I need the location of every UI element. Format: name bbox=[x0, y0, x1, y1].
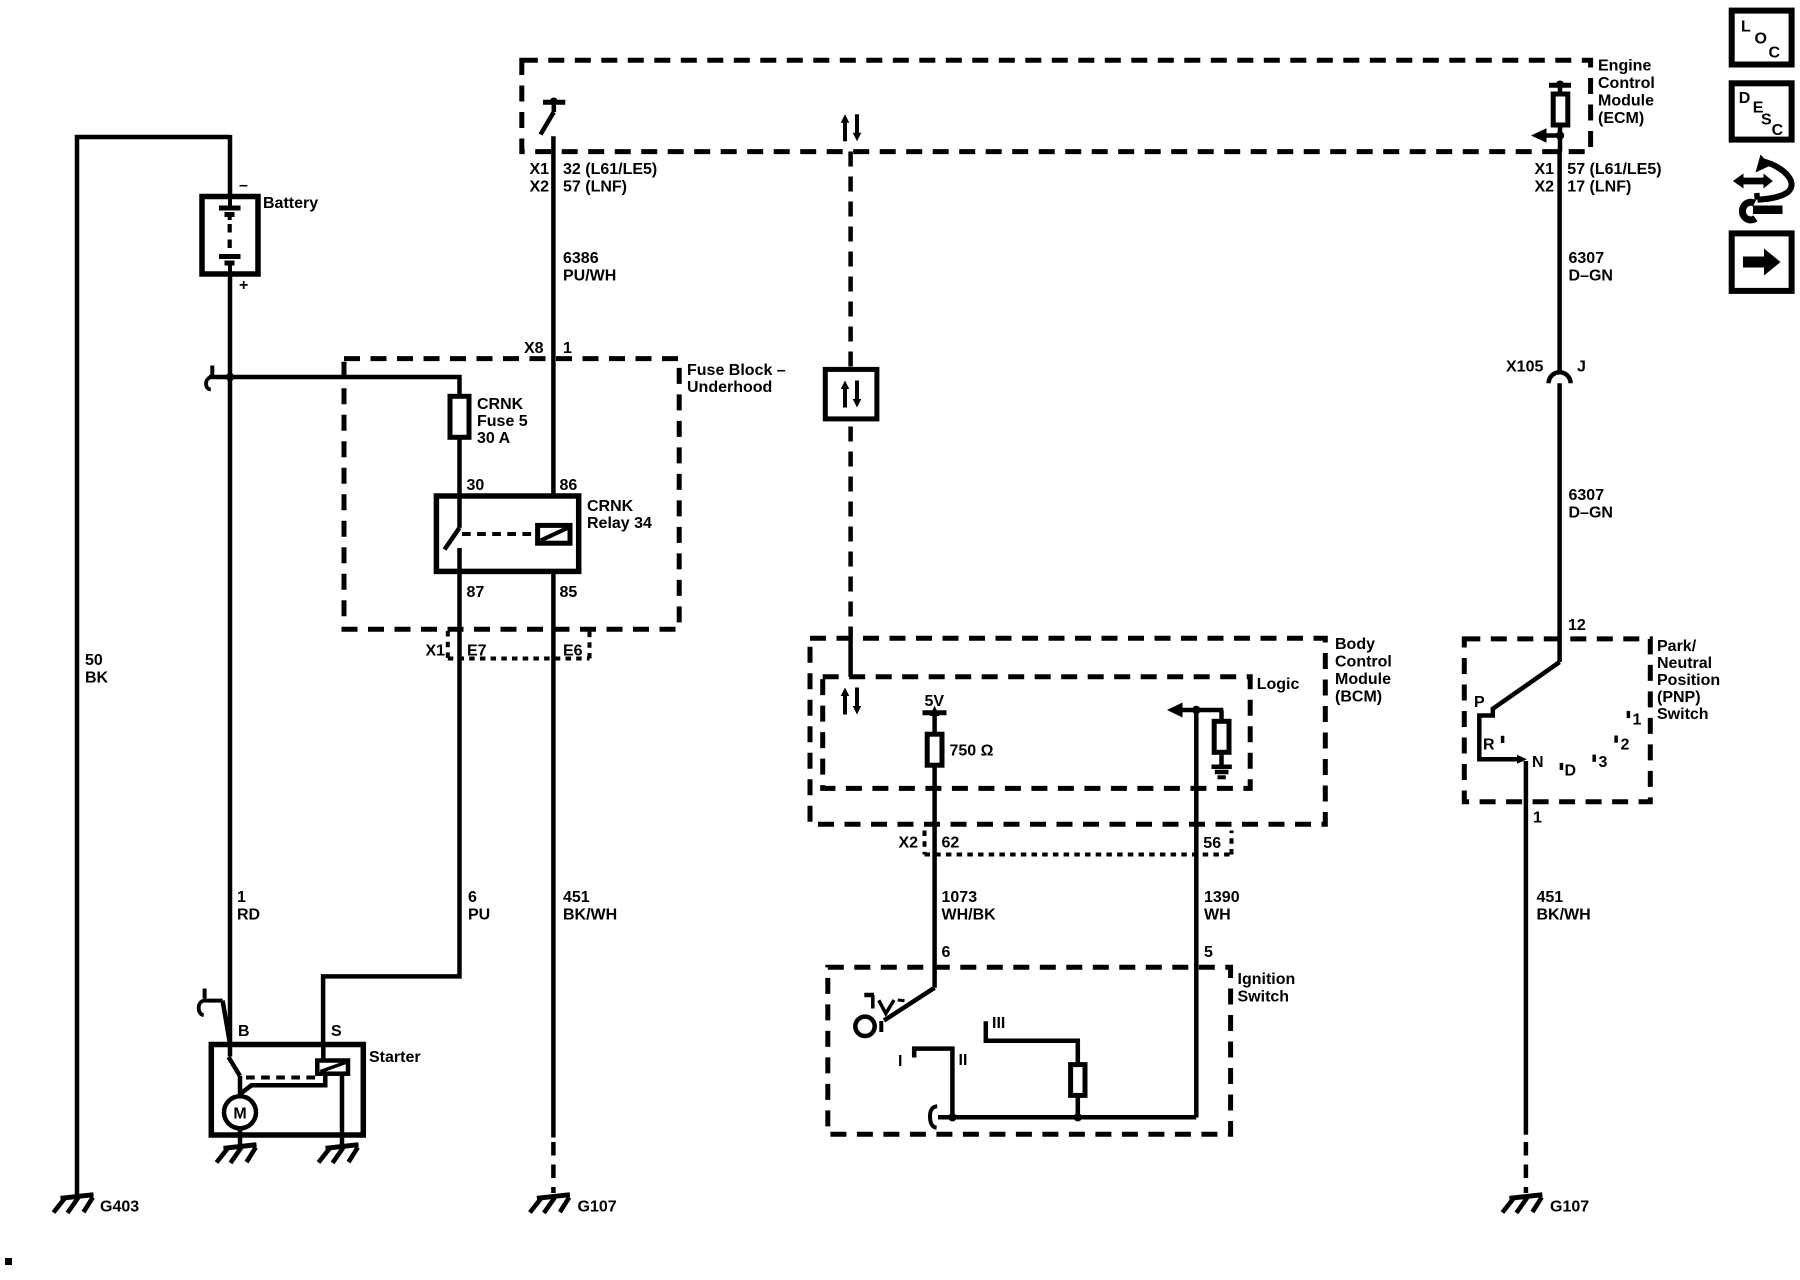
svg-text:6307: 6307 bbox=[1569, 487, 1605, 504]
svg-text:6307: 6307 bbox=[1569, 250, 1605, 267]
svg-text:D–GN: D–GN bbox=[1569, 505, 1613, 522]
svg-text:G403: G403 bbox=[100, 1199, 139, 1216]
svg-text:85: 85 bbox=[560, 584, 578, 601]
svg-text:CRNK: CRNK bbox=[477, 396, 524, 413]
svg-text:57 (L61/LE5): 57 (L61/LE5) bbox=[1567, 161, 1661, 178]
svg-text:I: I bbox=[898, 1053, 902, 1070]
svg-text:C: C bbox=[1772, 122, 1784, 139]
svg-text:P: P bbox=[1474, 694, 1485, 711]
svg-text:6: 6 bbox=[468, 889, 477, 906]
svg-text:S: S bbox=[1761, 112, 1772, 129]
svg-text:X2: X2 bbox=[530, 179, 550, 196]
svg-text:2: 2 bbox=[1621, 737, 1630, 754]
svg-text:–: – bbox=[239, 177, 248, 194]
svg-text:WH: WH bbox=[1204, 907, 1231, 924]
svg-text:62: 62 bbox=[942, 835, 960, 852]
svg-text:6: 6 bbox=[942, 944, 951, 961]
svg-text:Control: Control bbox=[1598, 75, 1655, 92]
svg-text:L: L bbox=[1741, 19, 1751, 36]
svg-text:II: II bbox=[959, 1052, 968, 1069]
svg-text:M: M bbox=[233, 1106, 246, 1123]
svg-text:Ignition: Ignition bbox=[1238, 971, 1296, 988]
svg-text:E7: E7 bbox=[467, 643, 487, 660]
svg-text:BK/WH: BK/WH bbox=[1537, 907, 1591, 924]
svg-text:Module: Module bbox=[1598, 93, 1654, 110]
svg-text:1: 1 bbox=[1533, 810, 1542, 827]
svg-text:BK: BK bbox=[85, 670, 109, 687]
svg-text:1073: 1073 bbox=[942, 889, 978, 906]
svg-text:56: 56 bbox=[1203, 835, 1221, 852]
svg-text:R: R bbox=[1483, 737, 1495, 754]
svg-text:N: N bbox=[1532, 754, 1544, 771]
svg-text:Engine: Engine bbox=[1598, 58, 1651, 75]
svg-text:30: 30 bbox=[467, 477, 485, 494]
svg-text:451: 451 bbox=[563, 889, 590, 906]
svg-text:Module: Module bbox=[1335, 671, 1391, 688]
svg-text:CRNK: CRNK bbox=[587, 498, 634, 515]
svg-text:D: D bbox=[1565, 763, 1577, 780]
svg-text:X2: X2 bbox=[1535, 179, 1555, 196]
svg-text:750 Ω: 750 Ω bbox=[950, 743, 994, 760]
svg-text:57 (LNF): 57 (LNF) bbox=[563, 179, 627, 196]
svg-text:X1: X1 bbox=[426, 643, 446, 660]
svg-text:III: III bbox=[992, 1015, 1005, 1032]
svg-text:Position: Position bbox=[1657, 672, 1720, 689]
svg-text:451: 451 bbox=[1537, 889, 1564, 906]
svg-text:Underhood: Underhood bbox=[687, 379, 772, 396]
svg-text:Battery: Battery bbox=[263, 195, 318, 212]
svg-text:B: B bbox=[238, 1023, 250, 1040]
svg-text:+: + bbox=[239, 277, 248, 294]
svg-text:Park/: Park/ bbox=[1657, 638, 1697, 655]
svg-text:(PNP): (PNP) bbox=[1657, 689, 1701, 706]
svg-text:D: D bbox=[1739, 90, 1751, 107]
svg-text:30 A: 30 A bbox=[477, 430, 511, 447]
svg-text:1: 1 bbox=[563, 340, 572, 357]
svg-text:E6: E6 bbox=[563, 643, 583, 660]
svg-text:G107: G107 bbox=[1550, 1199, 1589, 1216]
svg-text:RD: RD bbox=[237, 907, 260, 924]
svg-text:PU/WH: PU/WH bbox=[563, 268, 616, 285]
svg-text:1: 1 bbox=[1633, 712, 1642, 729]
svg-text:G107: G107 bbox=[578, 1199, 617, 1216]
svg-text:Fuse 5: Fuse 5 bbox=[477, 413, 528, 430]
svg-text:12: 12 bbox=[1568, 617, 1586, 634]
svg-text:D–GN: D–GN bbox=[1569, 268, 1613, 285]
svg-text:S: S bbox=[331, 1023, 342, 1040]
svg-text:50: 50 bbox=[85, 652, 103, 669]
svg-text:32 (L61/LE5): 32 (L61/LE5) bbox=[563, 161, 657, 178]
svg-text:C: C bbox=[1769, 45, 1781, 62]
svg-text:6386: 6386 bbox=[563, 250, 599, 267]
svg-text:X8: X8 bbox=[524, 340, 544, 357]
svg-text:Logic: Logic bbox=[1257, 676, 1300, 693]
svg-text:Control: Control bbox=[1335, 654, 1392, 671]
svg-text:Switch: Switch bbox=[1657, 706, 1709, 723]
svg-text:Body: Body bbox=[1335, 636, 1375, 653]
svg-text:(ECM): (ECM) bbox=[1598, 110, 1644, 127]
svg-text:X2: X2 bbox=[899, 835, 919, 852]
svg-text:Relay 34: Relay 34 bbox=[587, 515, 652, 532]
svg-text:O: O bbox=[1755, 31, 1767, 48]
svg-text:Fuse Block –: Fuse Block – bbox=[687, 362, 786, 379]
svg-text:WH/BK: WH/BK bbox=[942, 907, 997, 924]
svg-text:Neutral: Neutral bbox=[1657, 655, 1712, 672]
svg-text:1: 1 bbox=[237, 889, 246, 906]
svg-text:Starter: Starter bbox=[369, 1049, 421, 1066]
svg-text:X1: X1 bbox=[1535, 161, 1555, 178]
svg-text:BK/WH: BK/WH bbox=[563, 907, 617, 924]
svg-text:87: 87 bbox=[467, 584, 485, 601]
svg-text:PU: PU bbox=[468, 907, 490, 924]
svg-text:3: 3 bbox=[1599, 754, 1608, 771]
svg-text:5: 5 bbox=[1204, 944, 1213, 961]
svg-text:J: J bbox=[1577, 359, 1586, 376]
svg-text:Switch: Switch bbox=[1238, 989, 1290, 1006]
svg-text:(BCM): (BCM) bbox=[1335, 689, 1382, 706]
svg-text:X105: X105 bbox=[1506, 359, 1543, 376]
svg-text:X1: X1 bbox=[530, 161, 550, 178]
svg-text:17 (LNF): 17 (LNF) bbox=[1567, 179, 1631, 196]
svg-text:86: 86 bbox=[560, 477, 578, 494]
svg-text:1390: 1390 bbox=[1204, 889, 1240, 906]
